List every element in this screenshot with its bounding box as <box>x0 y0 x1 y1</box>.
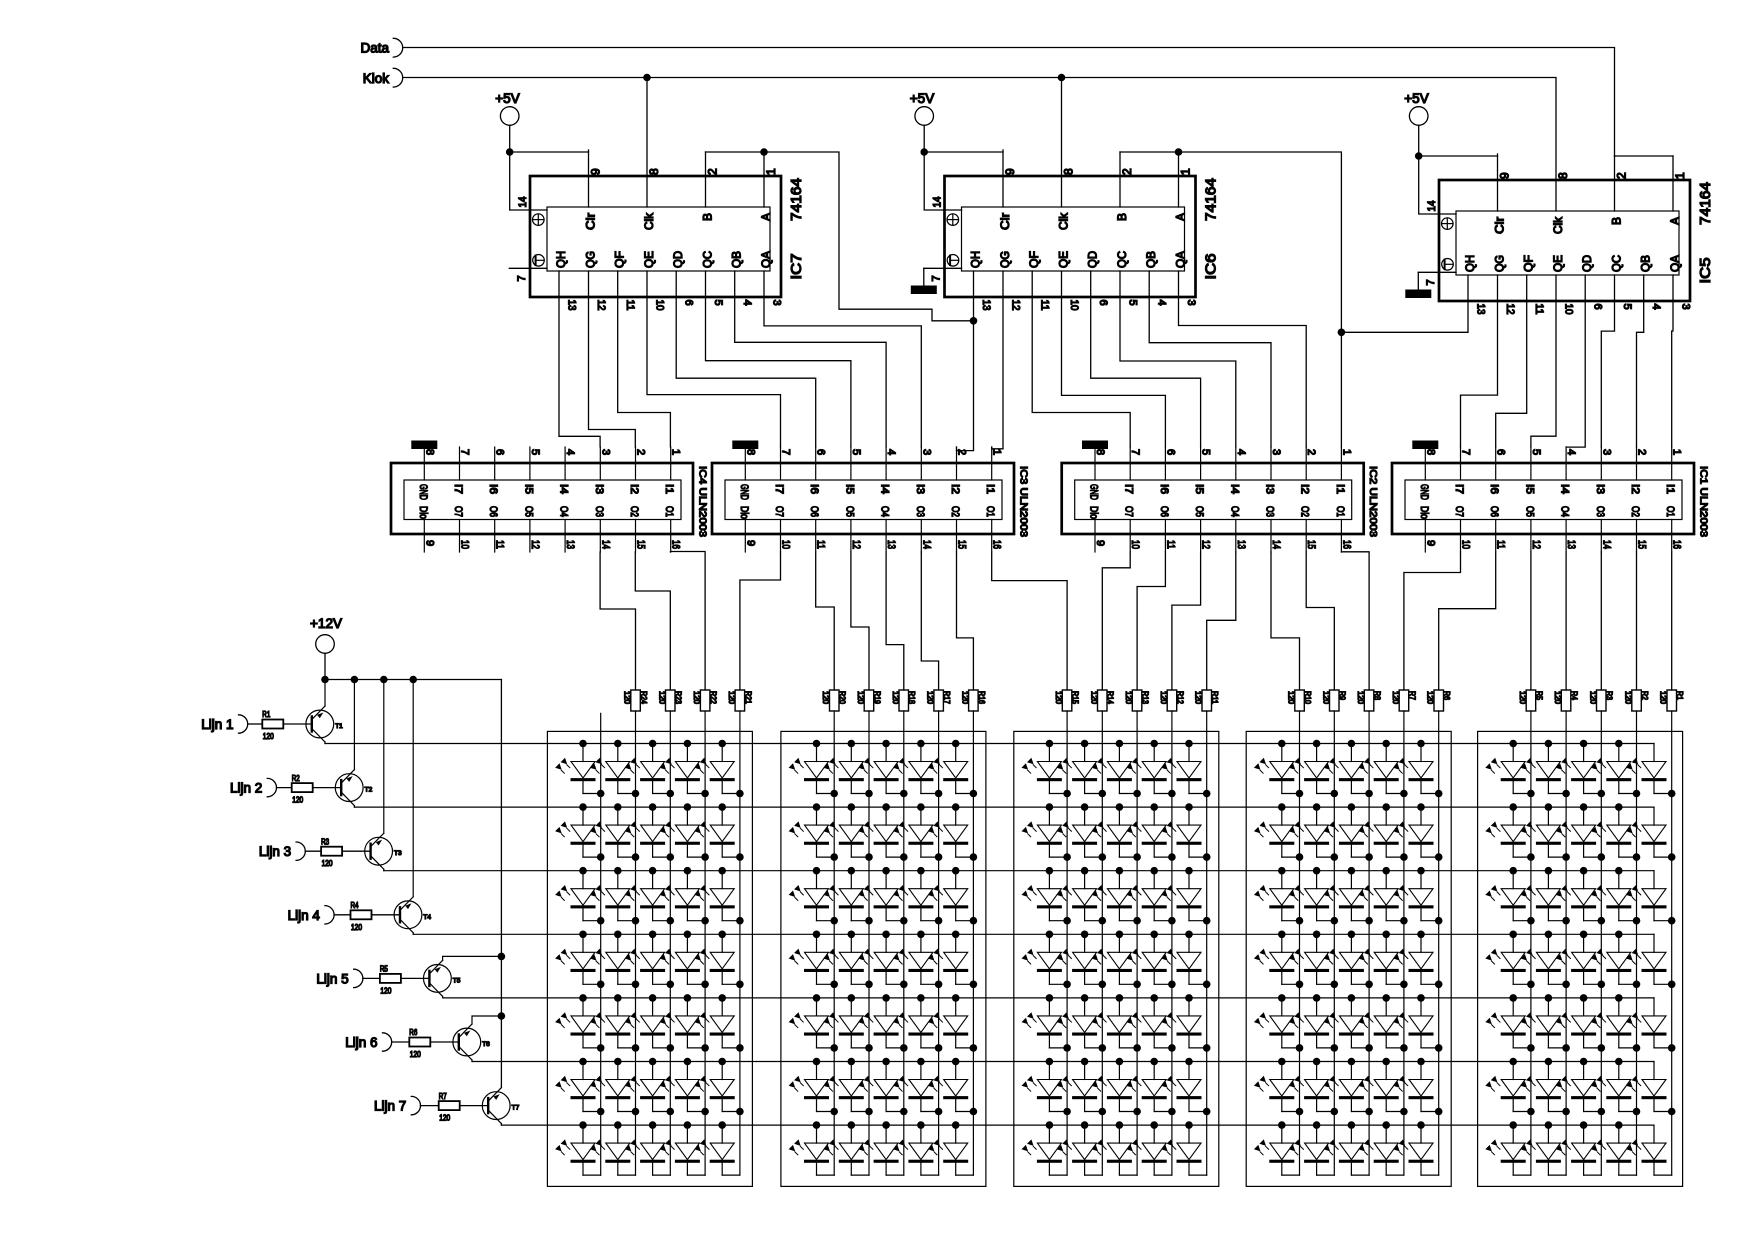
svg-text:13: 13 <box>564 540 576 549</box>
connector Lijn 1 <box>201 715 247 733</box>
svg-text:+12V: +12V <box>310 616 342 631</box>
LED block1 row4 col1 <box>555 931 604 989</box>
wire R1 to T1 base <box>283 723 312 725</box>
svg-text:IC1 ULN2003: IC1 ULN2003 <box>1698 466 1710 537</box>
LED block2 row3 col3 <box>858 867 907 925</box>
LED block2 row6 col3 <box>858 1058 907 1116</box>
LED block3 row3 col3 <box>1092 867 1141 925</box>
transistor T7 <box>482 1088 519 1124</box>
svg-text:74164: 74164 <box>789 178 805 221</box>
svg-text:A: A <box>1668 217 1682 225</box>
IC IC2 ULN2003 driver body <box>1062 447 1364 552</box>
svg-text:I1: I1 <box>984 484 996 494</box>
svg-text:74164: 74164 <box>1204 178 1220 221</box>
svg-text:4: 4 <box>741 300 753 306</box>
transistor T6 <box>453 1024 490 1060</box>
LED block5 row4 col5 <box>1626 934 1675 988</box>
svg-text:T2: T2 <box>365 787 373 794</box>
LED block3 row4 col1 <box>1022 931 1071 989</box>
svg-text:O7: O7 <box>773 506 785 517</box>
svg-text:4: 4 <box>564 449 576 455</box>
svg-text:12: 12 <box>1010 300 1022 311</box>
svg-text:8: 8 <box>1094 449 1106 455</box>
LED block3 row4 col2 <box>1057 931 1106 989</box>
svg-text:Lijn 5: Lijn 5 <box>316 971 348 986</box>
svg-text:9: 9 <box>1003 168 1017 175</box>
svg-text:9: 9 <box>744 540 756 546</box>
ground IC5 <box>1406 272 1431 297</box>
LED block4 row5 col5 <box>1393 994 1442 1052</box>
wire Lijn 1 to R1 <box>248 723 263 725</box>
connector Lijn 3 <box>259 842 305 860</box>
svg-text:1: 1 <box>670 449 682 455</box>
svg-text:Dio: Dio <box>738 506 750 519</box>
wire IC7 QB to IC3 I4 <box>735 271 886 447</box>
LED block5 row5 col2 <box>1521 994 1570 1052</box>
svg-text:Klok: Klok <box>363 71 390 86</box>
svg-text:7: 7 <box>516 275 528 281</box>
svg-text:I5: I5 <box>1193 484 1205 494</box>
LED matrix block 2 border <box>781 731 986 1186</box>
power +5V for IC5 <box>1404 91 1428 156</box>
LED block1 row5 col2 <box>590 994 639 1052</box>
IC IC5 74164 shift register body <box>1439 180 1690 301</box>
LED block4 row7 col3 <box>1324 1121 1370 1175</box>
svg-text:I3: I3 <box>593 484 605 494</box>
LED block5 row7 col4 <box>1591 1121 1637 1175</box>
svg-text:QB: QB <box>1144 251 1158 268</box>
wire IC6 QF to IC2 I7 <box>1032 271 1130 447</box>
svg-text:IC3 ULN2003: IC3 ULN2003 <box>1018 466 1030 537</box>
svg-text:R6: R6 <box>409 1028 417 1037</box>
svg-text:R19: R19 <box>872 691 881 704</box>
LED block5 row6 col4 <box>1591 1058 1640 1116</box>
wire IC2 O2 to R9 <box>1306 552 1334 690</box>
svg-text:120: 120 <box>1426 691 1435 705</box>
LED block3 row6 col1 <box>1022 1058 1071 1116</box>
LED block5 row3 col1 <box>1485 867 1534 925</box>
power +5V for IC6 <box>910 91 934 152</box>
wire IC6 QH to IC3 I2 <box>957 271 974 451</box>
svg-text:I6: I6 <box>1158 484 1170 494</box>
svg-text:2: 2 <box>1305 449 1317 455</box>
svg-text:74164: 74164 <box>1698 182 1714 225</box>
svg-text:I7: I7 <box>1453 484 1465 494</box>
svg-text:O2: O2 <box>628 506 640 517</box>
junction cascade on IC6 QH <box>970 317 978 325</box>
LED block2 row5 col1 <box>789 994 838 1052</box>
wire IC3 O7 to R21 <box>740 552 781 690</box>
svg-text:8: 8 <box>744 449 756 455</box>
LED block4 row1 col5 <box>1393 740 1442 798</box>
wire IC6 pin7 GND <box>924 267 962 269</box>
transistor T5 <box>424 960 461 996</box>
svg-text:O1: O1 <box>1334 506 1346 517</box>
wire +5V to IC6 pin9 Clr and pin14 <box>924 150 1003 210</box>
svg-text:QG: QG <box>998 251 1012 268</box>
LED block1 row6 col2 <box>590 1058 639 1116</box>
svg-text:120: 120 <box>891 691 900 705</box>
svg-text:120: 120 <box>380 986 391 995</box>
svg-text:O3: O3 <box>914 506 926 517</box>
LED block2 row3 col5 <box>928 867 977 925</box>
svg-text:O7: O7 <box>452 506 464 517</box>
LED block3 row5 col4 <box>1126 994 1175 1052</box>
svg-text:12: 12 <box>850 540 862 549</box>
junction cascade on IC5 QH <box>1338 329 1346 337</box>
LED block2 row1 col3 <box>858 740 907 798</box>
wire IC2 O4 to R11 <box>1207 552 1236 690</box>
svg-text:O6: O6 <box>487 506 499 517</box>
wire R7 to T7 base <box>460 1105 489 1107</box>
wire IC6 QC to IC2 I4 <box>1120 271 1236 447</box>
svg-text:10: 10 <box>1563 304 1575 315</box>
IC IC7 74164 shift register body <box>530 176 781 297</box>
junction Klok to IC6 Clk <box>1058 74 1066 82</box>
LED block1 row5 col1 <box>555 994 604 1052</box>
resistor R24 120 <box>623 690 648 711</box>
wire IC7 QD to IC3 I6 <box>676 271 816 447</box>
wire IC1 O5 to R5 <box>1530 552 1532 690</box>
wire T3 collector to row 3 <box>383 869 385 871</box>
LED block2 row5 col2 <box>823 994 872 1052</box>
svg-text:3: 3 <box>1680 304 1692 310</box>
svg-text:6: 6 <box>494 449 506 455</box>
LED block5 row7 col2 <box>1521 1121 1567 1175</box>
svg-text:120: 120 <box>926 691 935 705</box>
svg-text:T4: T4 <box>423 914 431 921</box>
LED block3 row6 col4 <box>1126 1058 1175 1116</box>
LED block5 row5 col1 <box>1485 994 1534 1052</box>
connector Lijn 7 <box>374 1096 420 1114</box>
IC7 power pin symbol (circled plus) <box>533 214 545 226</box>
LED block1 row1 col2 <box>590 740 639 798</box>
LED block3 row4 col3 <box>1092 931 1141 989</box>
svg-text:14: 14 <box>517 197 529 208</box>
LED block5 row3 col2 <box>1521 867 1570 925</box>
svg-text:4: 4 <box>885 449 897 455</box>
svg-text:3: 3 <box>1600 449 1612 455</box>
svg-text:I1: I1 <box>1334 484 1346 494</box>
LED block5 row1 col1 <box>1485 740 1534 798</box>
LED block3 row7 col2 <box>1057 1121 1103 1175</box>
LED block4 row6 col2 <box>1289 1058 1338 1116</box>
svg-text:IC6: IC6 <box>1204 254 1220 280</box>
svg-text:2: 2 <box>1636 449 1648 455</box>
svg-text:QB: QB <box>1639 255 1653 272</box>
svg-text:Clk: Clk <box>1057 212 1071 230</box>
LED block1 row6 col3 <box>625 1058 674 1116</box>
svg-text:Lijn 1: Lijn 1 <box>201 717 233 732</box>
resistor R3 120 (base) <box>321 837 342 868</box>
svg-text:120: 120 <box>856 691 865 705</box>
svg-text:R15: R15 <box>1071 691 1080 704</box>
wire IC7 QH to IC4 I3 <box>559 271 600 447</box>
svg-text:2: 2 <box>1120 168 1134 175</box>
svg-text:O6: O6 <box>808 506 820 517</box>
svg-text:R11: R11 <box>1210 691 1219 704</box>
junction +5V IC6 <box>920 148 928 156</box>
wire row line Lijn 6 <box>472 1061 1654 1063</box>
resistor R17 120 <box>926 690 951 711</box>
svg-text:Lijn 3: Lijn 3 <box>259 844 291 859</box>
wire T5 emitter to +12V <box>443 956 502 960</box>
svg-text:2: 2 <box>706 168 720 175</box>
svg-text:13: 13 <box>1475 304 1487 315</box>
LED block3 row1 col2 <box>1057 740 1106 798</box>
svg-text:O2: O2 <box>1629 506 1641 517</box>
svg-text:R20: R20 <box>838 691 847 704</box>
LED block2 row2 col1 <box>789 803 838 861</box>
LED block5 row2 col2 <box>1521 803 1570 861</box>
resistor R1 120 <box>1659 690 1684 711</box>
LED block2 row3 col2 <box>823 867 872 925</box>
svg-text:11: 11 <box>1495 540 1507 549</box>
resistor R2 120 <box>1624 690 1649 711</box>
svg-text:Clr: Clr <box>584 213 598 230</box>
junction Klok to IC7 Clk <box>643 74 651 82</box>
LED block1 row3 col3 <box>625 867 674 925</box>
ground bar IC4 pin8 <box>412 441 437 449</box>
wire R5 to T5 base <box>401 977 430 979</box>
svg-text:O1: O1 <box>663 506 675 517</box>
junction +12V bus T2 <box>351 676 359 684</box>
wire matrix column lines <box>601 711 1672 1175</box>
wire IC5 A-B tie <box>1615 155 1674 157</box>
wire row line Lijn 3 <box>384 870 1654 872</box>
resistor R14 120 <box>1089 690 1114 711</box>
wire Lijn 7 to R7 <box>421 1105 439 1107</box>
svg-text:O5: O5 <box>522 506 534 517</box>
svg-text:120: 120 <box>1659 691 1668 705</box>
resistor R5 120 (base) <box>380 965 401 996</box>
svg-text:QA: QA <box>1668 255 1682 272</box>
wire T2 collector to row 2 <box>353 806 355 808</box>
svg-text:8: 8 <box>423 449 435 455</box>
svg-text:R8: R8 <box>1373 691 1382 700</box>
svg-text:R2: R2 <box>1640 691 1649 700</box>
svg-text:14: 14 <box>932 197 944 208</box>
power +12V <box>310 616 342 680</box>
resistor R18 120 <box>891 690 916 711</box>
LED matrix block 3 border <box>1014 731 1219 1186</box>
svg-text:O2: O2 <box>1299 506 1311 517</box>
wire T4 collector to row 4 <box>412 933 414 935</box>
LED block4 row3 col2 <box>1289 867 1338 925</box>
LED block5 row6 col2 <box>1521 1058 1570 1116</box>
LED block2 row4 col2 <box>823 931 872 989</box>
wire IC5 QD to IC1 I4 <box>1566 275 1585 447</box>
IC7 pin labels and numbers <box>516 168 783 311</box>
svg-text:4: 4 <box>1650 304 1662 310</box>
svg-text:5: 5 <box>1127 300 1139 306</box>
svg-text:R22: R22 <box>709 691 718 704</box>
svg-text:9: 9 <box>589 168 603 175</box>
svg-text:O5: O5 <box>1523 506 1535 517</box>
IC5 power pin symbol (circled plus) <box>1442 218 1454 230</box>
svg-text:120: 120 <box>439 1114 450 1123</box>
LED block4 row5 col3 <box>1324 994 1373 1052</box>
LED block4 row3 col3 <box>1324 867 1373 925</box>
resistor R13 120 <box>1124 690 1149 711</box>
LED block3 row7 col5 <box>1161 1121 1207 1175</box>
resistor R5 120 <box>1518 690 1543 711</box>
LED block1 row1 col1 <box>555 740 604 798</box>
LED block1 row6 col1 <box>555 1058 604 1116</box>
IC6 pin stubs B A <box>1120 152 1179 207</box>
svg-text:O3: O3 <box>593 506 605 517</box>
svg-text:O2: O2 <box>949 506 961 517</box>
IC5 pin labels and numbers <box>1425 172 1692 315</box>
svg-text:120: 120 <box>1089 691 1098 705</box>
svg-text:R7: R7 <box>439 1092 447 1101</box>
svg-text:11: 11 <box>494 540 506 549</box>
LED block4 row1 col3 <box>1324 740 1373 798</box>
LED block2 row1 col5 <box>928 740 977 798</box>
IC IC4 ULN2003 driver body <box>391 447 693 552</box>
svg-text:QE: QE <box>642 251 656 268</box>
LED block1 row2 col3 <box>625 803 674 861</box>
LED block1 row2 col5 <box>694 803 743 861</box>
svg-text:O6: O6 <box>1488 506 1500 517</box>
svg-text:+5V: +5V <box>910 91 934 106</box>
svg-text:A: A <box>1174 213 1188 221</box>
LED block4 row1 col2 <box>1289 740 1338 798</box>
wire row line Lijn 2 <box>354 806 1654 808</box>
connector Lijn 2 <box>230 778 276 796</box>
wire T1 collector to row 1 <box>324 742 326 744</box>
resistor R16 120 <box>960 690 985 711</box>
wire IC7 A-B tie <box>706 151 765 153</box>
svg-text:9: 9 <box>1424 540 1436 546</box>
LED block4 row4 col5 <box>1393 931 1442 989</box>
LED block4 row6 col5 <box>1393 1058 1442 1116</box>
svg-text:11: 11 <box>815 540 827 549</box>
LED block5 row3 col3 <box>1556 867 1605 925</box>
svg-text:7: 7 <box>1425 279 1437 285</box>
LED block4 row4 col2 <box>1289 931 1338 989</box>
LED block3 row3 col2 <box>1057 867 1106 925</box>
svg-text:T1: T1 <box>335 723 343 730</box>
LED block1 row3 col5 <box>694 867 743 925</box>
LED block1 row4 col2 <box>590 931 639 989</box>
svg-text:8: 8 <box>1062 168 1076 175</box>
wire R6 to T6 base <box>430 1041 459 1043</box>
svg-text:I5: I5 <box>1523 484 1535 494</box>
LED block5 row2 col3 <box>1556 803 1605 861</box>
junction IC6 pin1 <box>1175 148 1183 156</box>
svg-text:I3: I3 <box>1594 484 1606 494</box>
svg-text:16: 16 <box>991 540 1003 549</box>
svg-text:5: 5 <box>1621 304 1633 310</box>
svg-text:12: 12 <box>1200 540 1212 549</box>
svg-text:10: 10 <box>654 300 666 311</box>
wire IC4 O2 to R23 <box>635 552 670 690</box>
svg-text:5: 5 <box>1530 449 1542 455</box>
LED block4 row3 col4 <box>1358 867 1407 925</box>
LED block1 row2 col2 <box>590 803 639 861</box>
svg-text:7: 7 <box>931 275 943 281</box>
svg-text:6: 6 <box>815 449 827 455</box>
LED block1 row3 col2 <box>590 867 639 925</box>
svg-text:QE: QE <box>1551 255 1565 272</box>
LED block1 row4 col3 <box>625 931 674 989</box>
LED block3 row2 col3 <box>1092 803 1141 861</box>
svg-text:16: 16 <box>670 540 682 549</box>
svg-text:QF: QF <box>1027 251 1041 268</box>
resistor R15 120 <box>1054 690 1079 711</box>
LED block3 row5 col3 <box>1092 994 1141 1052</box>
LED block3 row2 col4 <box>1126 803 1175 861</box>
svg-text:I4: I4 <box>1559 484 1571 494</box>
svg-text:5: 5 <box>712 300 724 306</box>
LED block5 row1 col2 <box>1521 740 1570 798</box>
svg-text:I1: I1 <box>663 484 675 494</box>
svg-text:O6: O6 <box>1158 506 1170 517</box>
LED block5 row1 col4 <box>1591 740 1640 798</box>
wire IC3 O3 to R17 <box>921 552 938 690</box>
svg-text:Lijn 6: Lijn 6 <box>345 1035 377 1050</box>
svg-text:15: 15 <box>956 540 968 549</box>
svg-text:O7: O7 <box>1453 506 1465 517</box>
wire R2 to T2 base <box>313 787 342 789</box>
wire IC5 QC to IC1 I3 <box>1601 275 1614 447</box>
svg-text:1: 1 <box>764 168 778 175</box>
connector Lijn 6 <box>345 1033 391 1051</box>
LED block2 row5 col3 <box>858 994 907 1052</box>
LED block3 row7 col4 <box>1126 1121 1172 1175</box>
junction +12V bus T4 <box>409 676 417 684</box>
svg-text:QD: QD <box>1580 255 1594 272</box>
svg-text:T7: T7 <box>512 1105 520 1112</box>
IC IC3 ULN2003 driver body <box>712 447 1014 552</box>
svg-text:Dio: Dio <box>1418 506 1430 519</box>
IC5 pin stubs B A <box>1615 156 1674 211</box>
svg-text:10: 10 <box>1460 540 1472 549</box>
LED block1 row6 col4 <box>660 1058 709 1116</box>
svg-text:+5V: +5V <box>1404 91 1428 106</box>
LED block1 row2 col1 <box>555 803 604 861</box>
resistor R4 120 <box>1553 690 1578 711</box>
svg-text:GND: GND <box>738 484 750 500</box>
LED block4 row2 col2 <box>1289 803 1338 861</box>
svg-text:I2: I2 <box>1299 484 1311 494</box>
svg-text:5: 5 <box>1200 449 1212 455</box>
svg-text:Lijn 7: Lijn 7 <box>374 1099 406 1114</box>
svg-text:120: 120 <box>1124 691 1133 705</box>
svg-text:I4: I4 <box>879 484 891 494</box>
LED block3 row2 col1 <box>1022 803 1071 861</box>
LED block1 row7 col2 <box>590 1121 636 1175</box>
svg-text:120: 120 <box>351 923 362 932</box>
LED block4 row2 col5 <box>1393 803 1442 861</box>
svg-text:R14: R14 <box>1106 691 1115 704</box>
svg-text:5: 5 <box>529 449 541 455</box>
wire +5V to IC7 pin9 Clr and pin14 <box>510 150 589 210</box>
svg-text:R1: R1 <box>1675 691 1684 700</box>
LED block4 row1 col1 <box>1254 740 1303 798</box>
LED block5 row2 col4 <box>1591 803 1640 861</box>
svg-text:Clk: Clk <box>1551 216 1565 234</box>
svg-text:15: 15 <box>1305 540 1317 549</box>
LED block2 row6 col5 <box>928 1058 977 1116</box>
svg-text:14: 14 <box>1426 201 1438 212</box>
transistor T4 <box>394 897 431 933</box>
svg-text:R3: R3 <box>1605 691 1614 700</box>
svg-text:11: 11 <box>1164 540 1176 549</box>
svg-text:QD: QD <box>1086 251 1100 268</box>
svg-text:120: 120 <box>1054 691 1063 705</box>
